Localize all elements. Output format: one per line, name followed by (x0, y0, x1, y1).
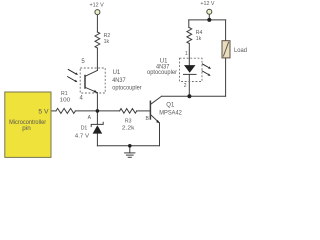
svg-text:1: 1 (185, 51, 188, 57)
svg-text:100: 100 (60, 97, 71, 103)
svg-text:+12 V: +12 V (90, 2, 105, 8)
svg-text:2.2k: 2.2k (122, 126, 135, 132)
svg-text:pin: pin (22, 125, 31, 132)
svg-text:5 V: 5 V (38, 110, 48, 116)
svg-text:MPSA42: MPSA42 (159, 111, 182, 117)
svg-text:R1: R1 (61, 91, 68, 97)
svg-text:Q1: Q1 (166, 102, 175, 108)
svg-text:optocoupler: optocoupler (112, 85, 141, 91)
svg-text:4.7 V: 4.7 V (75, 133, 90, 139)
svg-text:R4: R4 (196, 30, 203, 36)
svg-text:1k: 1k (104, 39, 110, 45)
svg-text:R3: R3 (125, 118, 132, 124)
svg-text:optocoupler: optocoupler (147, 70, 177, 76)
svg-text:+12 V: +12 V (200, 1, 215, 7)
svg-text:4N37: 4N37 (112, 78, 126, 84)
svg-text:Load: Load (234, 48, 247, 54)
svg-text:2: 2 (184, 83, 187, 89)
svg-text:D1: D1 (81, 125, 88, 131)
svg-text:R2: R2 (104, 33, 111, 39)
svg-text:1k: 1k (196, 36, 202, 42)
svg-text:U1: U1 (113, 70, 121, 76)
